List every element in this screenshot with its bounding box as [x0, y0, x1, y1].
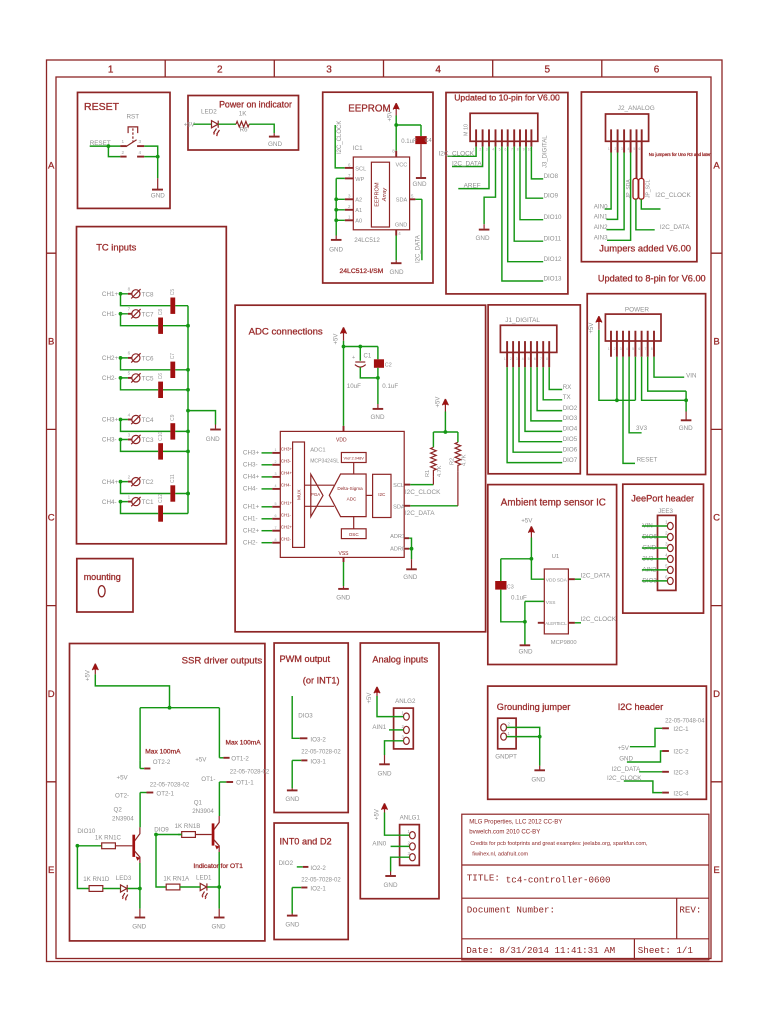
ADC1 PGA amplifier triangle [311, 474, 323, 516]
svg-text:DIO10: DIO10 [77, 828, 95, 835]
svg-text:OT1-1: OT1-1 [236, 780, 254, 787]
screw pin I2C-2 [662, 750, 669, 752]
svg-text:C2: C2 [385, 363, 392, 369]
svg-text:Indicator for OT1: Indicator for OT1 [193, 863, 243, 870]
svg-text:C10: C10 [158, 432, 164, 441]
wire +5V to VCC and C4 [396, 116, 421, 151]
wire core to I2C [366, 494, 373, 496]
screw pin IO3-2 [300, 737, 308, 739]
junction bus TC5 [186, 388, 190, 392]
svg-text:R2: R2 [449, 458, 455, 465]
wire DIO9 to RN1B and RN1A [156, 835, 182, 888]
jumper JP_SCL body [639, 178, 644, 199]
svg-text:POWER: POWER [625, 306, 650, 313]
svg-text:I2C_CLOCK: I2C_CLOCK [439, 150, 475, 157]
svg-text:3: 3 [326, 65, 332, 76]
svg-text:LED1: LED1 [196, 875, 212, 882]
svg-text:CH2-: CH2- [102, 375, 117, 382]
ground symbol Q1 [218, 909, 220, 917]
power +5V arrow ADC [341, 327, 347, 340]
screw terminal TC3 [102, 432, 154, 444]
wire +5V to ANLG1 pin1 [385, 813, 410, 836]
wire SDA I2C_DATA [415, 199, 422, 260]
wire ANLG2 pin3 to GND [385, 741, 404, 755]
svg-text:4: 4 [128, 412, 131, 417]
wire CH4+ [121, 482, 189, 494]
power +5V arrow ANLG1 [382, 803, 388, 812]
svg-text:1K: 1K [239, 111, 248, 118]
wire C3 to VSS net [501, 590, 545, 645]
svg-text:Delta-Sigma: Delta-Sigma [337, 486, 363, 491]
svg-text:TC3: TC3 [142, 437, 154, 444]
svg-text:1: 1 [128, 494, 131, 499]
junction RESET net [107, 144, 111, 148]
screw pin I2C-4 [662, 792, 669, 794]
capacitor C3 [495, 581, 506, 590]
ground symbol EEPROM left [335, 236, 337, 240]
svg-text:5: 5 [128, 371, 131, 376]
svg-text:2N3904: 2N3904 [112, 815, 134, 822]
screw pin I2C-1 [662, 727, 669, 729]
svg-text:7: 7 [511, 148, 513, 152]
svg-text:C7: C7 [170, 353, 176, 360]
screw pin OT1-1 [219, 781, 226, 783]
junction DIO9 [154, 833, 158, 837]
J3 pin stubs [476, 129, 531, 146]
wire IO2-1 to GND [291, 888, 293, 914]
ADC connections section box [235, 305, 486, 632]
svg-text:bvwelch.com 2010 CC-BY: bvwelch.com 2010 CC-BY [469, 829, 540, 836]
svg-text:CH4-: CH4- [102, 499, 117, 506]
svg-text:CH4-: CH4- [243, 486, 258, 493]
svg-text:TC8: TC8 [142, 291, 154, 298]
svg-text:A2: A2 [355, 198, 362, 204]
svg-text:Max 100mA: Max 100mA [145, 749, 181, 756]
junction CH2- [119, 376, 123, 380]
svg-text:2: 2 [510, 357, 512, 361]
POWER section box [587, 294, 705, 475]
svg-text:+: + [352, 355, 355, 361]
svg-text:0.1uF: 0.1uF [511, 595, 527, 602]
svg-text:4.7K: 4.7K [437, 465, 443, 477]
ADC1 input pin CH2- [243, 537, 292, 547]
svg-text:0.1uF: 0.1uF [382, 383, 398, 390]
svg-text:Grounding jumper: Grounding jumper [497, 702, 571, 712]
wire Q1 emitter to GND [218, 852, 220, 909]
ADC1 input pin CH2+ [243, 525, 293, 535]
frame row tick marks [47, 253, 723, 782]
capacitor C5 [170, 298, 175, 314]
capacitor C1 10uF polarized [355, 361, 365, 363]
svg-text:5: 5 [545, 65, 551, 76]
svg-text:2: 2 [217, 65, 223, 76]
jumper JP_SDA body [633, 178, 638, 199]
Power on indicator box [188, 96, 299, 151]
svg-text:B: B [713, 337, 719, 348]
capacitor C11 [170, 485, 175, 501]
svg-text:ADR0: ADR0 [390, 546, 405, 552]
svg-text:RX: RX [563, 384, 572, 391]
junction CH1+ [119, 292, 123, 296]
svg-text:GND: GND [476, 235, 490, 242]
svg-text:Document Number:: Document Number: [467, 905, 555, 916]
ADC1 Vref block [341, 453, 366, 463]
SSR driver outputs section box [70, 644, 265, 941]
JEE3 pin 4 3V3 [642, 552, 673, 562]
svg-text:CH1+: CH1+ [281, 501, 293, 506]
svg-text:4: 4 [275, 484, 277, 488]
junction bus TC2 [186, 492, 190, 496]
wire J1 pin4 DIO4 [525, 367, 562, 431]
svg-text:OT2-: OT2- [115, 793, 129, 800]
svg-text:7: 7 [275, 526, 277, 530]
svg-text:22-05-7048-04: 22-05-7048-04 [665, 719, 705, 725]
svg-text:I2C-3: I2C-3 [673, 770, 689, 777]
connector JEE3 body [658, 515, 676, 590]
IC1 pin SDA stub [410, 198, 416, 200]
svg-text:CH1+: CH1+ [243, 504, 260, 511]
svg-text:I2C header: I2C header [618, 702, 663, 712]
svg-text:1: 1 [108, 65, 114, 76]
svg-text:Q2: Q2 [114, 807, 123, 814]
connector GNDPT body [498, 718, 516, 749]
wire J1 pin2 DIO6 [513, 367, 562, 452]
power +5V arrow temp sensor [528, 526, 534, 537]
wire J2 pin4 AIN3 [607, 153, 631, 241]
svg-text:C1: C1 [364, 354, 372, 360]
IC1 pin A1 stub [345, 209, 354, 211]
svg-text:J3_DIGITAL: J3_DIGITAL [543, 135, 549, 168]
junction switch right [156, 155, 160, 159]
Grounding jumper and I2C header section box [488, 686, 707, 799]
svg-text:PWM output: PWM output [280, 654, 331, 664]
wire J3 pin1 I2C_CLOCK [448, 147, 477, 157]
svg-text:Q1: Q1 [194, 800, 203, 807]
J3 pin numbers [473, 148, 532, 152]
svg-text:RST: RST [127, 114, 140, 121]
op IC1 24LC512 body [353, 157, 409, 230]
svg-text:22-05-7028-02: 22-05-7028-02 [230, 770, 270, 776]
svg-text:8: 8 [517, 148, 519, 152]
svg-text:OT2-1: OT2-1 [156, 791, 174, 798]
wire J2 pin3 AIN2 [606, 153, 624, 230]
svg-text:1: 1 [608, 347, 610, 351]
svg-text:CH2+: CH2+ [102, 355, 119, 362]
wire J3 pin10 DIO8 [531, 147, 543, 179]
svg-text:(or INT1): (or INT1) [303, 675, 340, 685]
svg-text:C6: C6 [158, 373, 164, 380]
svg-text:1K RN1D: 1K RN1D [83, 876, 110, 883]
capacitor C2 0.1uF [374, 359, 384, 368]
svg-text:ADC: ADC [347, 497, 357, 502]
wire GND pin down [395, 236, 397, 261]
resistor R2 4.7K [455, 442, 461, 471]
svg-text:+5V: +5V [184, 122, 195, 128]
svg-text:2: 2 [128, 474, 131, 479]
ground symbol INT0 [291, 914, 293, 916]
capacitor C4 [415, 136, 426, 144]
svg-text:+5V: +5V [117, 775, 129, 782]
wire CH1- [121, 314, 189, 326]
svg-text:3: 3 [275, 472, 277, 476]
J2 pin numbers [608, 147, 641, 151]
svg-text:I2C-4: I2C-4 [673, 790, 689, 797]
wire I2C-3 to I2C_DATA [639, 771, 662, 773]
svg-text:RESET: RESET [84, 101, 120, 113]
capacitor C8 [158, 318, 163, 334]
svg-text:AIN1: AIN1 [594, 214, 608, 221]
resistor RN1D 1K [89, 886, 103, 892]
svg-text:I2C_CLOCK: I2C_CLOCK [655, 192, 691, 199]
wire J3 pin8 DIO10 [520, 147, 543, 220]
svg-text:GND: GND [403, 574, 417, 581]
svg-text:CH4-: CH4- [281, 483, 292, 488]
junction CH3- [119, 438, 123, 442]
svg-text:1K RN1A: 1K RN1A [163, 876, 190, 883]
svg-text:8: 8 [546, 357, 548, 361]
svg-text:6: 6 [534, 357, 536, 361]
svg-text:3: 3 [620, 347, 622, 351]
svg-text:LED3: LED3 [116, 875, 132, 882]
svg-text:5: 5 [528, 357, 530, 361]
wire +5V rail SSR [95, 674, 219, 760]
junction +5V VDD [342, 345, 346, 349]
junction bus TC4 [186, 430, 190, 434]
svg-text:DIO7: DIO7 [563, 457, 578, 464]
svg-text:GND: GND [212, 924, 226, 931]
svg-text:I2C_DATA: I2C_DATA [416, 235, 422, 263]
switch RST pin 4 stub [137, 156, 144, 158]
switch RST pin 3 stub [137, 145, 144, 147]
svg-text:fiwihex.nl, adafruit.com: fiwihex.nl, adafruit.com [472, 851, 528, 857]
POWER pin stubs [611, 331, 654, 357]
wire J3 pin2 I2C_DATA [452, 147, 483, 167]
svg-text:CH4+: CH4+ [281, 471, 293, 476]
JEE3 pin 6 DIO3 [642, 574, 673, 584]
svg-text:+5V: +5V [521, 518, 533, 525]
svg-text:C3: C3 [507, 585, 514, 591]
svg-text:D: D [48, 689, 55, 700]
svg-text:CH3-: CH3- [243, 462, 258, 469]
frame inner border [56, 77, 711, 959]
screw terminal TC6 [102, 351, 154, 363]
ANLG1 pin circles [410, 832, 416, 839]
svg-text:JEE3: JEE3 [658, 508, 673, 515]
wire OT1-1 to Q1 collector [218, 782, 220, 816]
svg-text:DIO3: DIO3 [563, 415, 578, 422]
svg-text:GND: GND [378, 771, 392, 778]
svg-text:+5V: +5V [195, 757, 207, 764]
svg-text:GND: GND [413, 181, 427, 188]
svg-text:PGA: PGA [311, 492, 320, 497]
connector POWER body [605, 314, 661, 341]
junction CH4- [119, 500, 123, 504]
IC1 pin WP stub [345, 177, 354, 179]
svg-text:M 10: M 10 [464, 124, 470, 136]
screw pin IO3-1 [292, 759, 301, 761]
ground symbol ADC caps [377, 404, 379, 408]
switch RST stem [132, 128, 134, 141]
svg-text:3: 3 [128, 432, 131, 437]
J1 pin stubs [507, 341, 549, 367]
svg-text:3V3: 3V3 [636, 425, 648, 432]
svg-text:DIO2: DIO2 [563, 405, 578, 412]
svg-text:CH4+: CH4+ [102, 479, 119, 486]
svg-text:Date: 8/31/2014 11:41:31 AM: Date: 8/31/2014 11:41:31 AM [466, 945, 615, 956]
svg-text:GND: GND [206, 436, 220, 443]
connector ANLG1 body [400, 825, 420, 866]
wire AIN0 to ANLG1 pin2 [391, 845, 410, 847]
svg-text:+5V: +5V [388, 111, 394, 122]
svg-text:TC5: TC5 [142, 376, 154, 383]
svg-text:C: C [713, 513, 720, 524]
LED2 emission arrows [214, 129, 220, 135]
svg-text:CH1+: CH1+ [102, 291, 119, 298]
junction C1 tap [358, 345, 362, 349]
ADC1 MUX block [293, 442, 305, 547]
ground symbol POWER [685, 412, 687, 420]
JEE3 pin 3 GND [642, 541, 673, 551]
title block outer [462, 814, 709, 960]
wire JP_SDA to I2C_DATA [636, 199, 655, 230]
Analog inputs section box [360, 643, 439, 899]
svg-text:TC2: TC2 [142, 479, 154, 486]
wire ANLG1 pin3 to GND [391, 857, 410, 871]
J1 pin numbers [504, 357, 548, 361]
ground symbol temp sensor [520, 644, 531, 646]
svg-text:CH2-: CH2- [243, 540, 258, 547]
wire J1 pin6 DIO2 [537, 367, 562, 410]
svg-text:TX: TX [563, 394, 571, 401]
svg-text:GND: GND [395, 223, 407, 229]
svg-text:4: 4 [522, 357, 524, 361]
svg-text:CH3-: CH3- [281, 459, 292, 464]
svg-text:A: A [713, 160, 720, 171]
svg-text:Max 100mA: Max 100mA [226, 740, 262, 747]
wire DIO10 to RN1C and RN1D [77, 846, 101, 889]
junction +5V temp [530, 557, 534, 561]
junction LED1 cathode [217, 885, 221, 889]
wire C2 to GND [377, 368, 379, 404]
wire WP A2 A1 A0 to GND [336, 178, 345, 235]
ADC1 internal signal lines [305, 485, 335, 506]
svg-text:8: 8 [651, 347, 653, 351]
svg-text:GND: GND [151, 193, 165, 200]
screw terminal TC4 [102, 412, 154, 424]
resistor RN1A 1K [166, 884, 180, 890]
screw pin I2C-3 [662, 771, 669, 773]
POWER pin numbers [608, 347, 653, 351]
power +5V arrow SSR [92, 664, 98, 675]
power +5V arrow EEPROM [393, 103, 399, 115]
junction GNDPT [538, 735, 542, 739]
wire +5V to LED2 [194, 123, 212, 125]
junction bus TC7 [186, 324, 190, 328]
svg-text:IO2-1: IO2-1 [310, 886, 326, 893]
svg-text:4.7K: 4.7K [461, 454, 467, 466]
screw pin OT1-2 [219, 757, 223, 759]
svg-text:1: 1 [504, 357, 506, 361]
junction IOREF [615, 398, 619, 402]
svg-text:JP_SCL: JP_SCL [646, 179, 652, 198]
svg-text:SDA: SDA [557, 578, 568, 584]
GNDPT pin circles [501, 724, 507, 731]
junction +5V EEPROM [394, 123, 398, 127]
wire J3 pin9 DIO9 [526, 147, 543, 199]
IC1 inner EEPROM Array block [371, 162, 389, 227]
ADC1 pin VDD stub [343, 426, 345, 432]
ADC1 input pin CH4+ [243, 471, 293, 481]
IC1 pin SCL stub [345, 167, 354, 169]
wire VSS to GND [343, 562, 345, 586]
svg-text:+5V: +5V [375, 809, 381, 820]
U1 pin SDA stub [568, 578, 575, 580]
svg-text:GND: GND [268, 141, 282, 148]
wire DIO3 to IO3-2 [292, 696, 300, 738]
svg-text:6: 6 [638, 147, 640, 151]
svg-text:4: 4 [626, 347, 628, 351]
ADC1 input pin CH1+ [243, 501, 293, 511]
svg-text:C: C [48, 513, 55, 524]
wire CH2+ [121, 358, 189, 370]
svg-text:5: 5 [632, 347, 634, 351]
svg-text:ANLG1: ANLG1 [400, 815, 421, 822]
svg-text:Sheet: 1/1: Sheet: 1/1 [638, 945, 694, 956]
Updated to 10-pin section box [446, 93, 568, 294]
svg-text:3: 3 [139, 139, 142, 144]
svg-text:+5V: +5V [85, 670, 91, 681]
svg-text:SDA: SDA [393, 505, 405, 511]
Ambient temp sensor section box [488, 485, 617, 665]
svg-text:I2C: I2C [378, 492, 386, 497]
svg-text:5: 5 [275, 502, 277, 506]
svg-text:AIN2: AIN2 [594, 224, 608, 231]
wire I2C-2 to GND [627, 751, 662, 762]
svg-text:1: 1 [122, 139, 125, 144]
svg-text:DIO3: DIO3 [298, 713, 313, 720]
svg-text:IO3-2: IO3-2 [310, 737, 326, 744]
wire +5V to VDD and C3 [501, 538, 545, 582]
wire +5V to pullup resistors [433, 412, 458, 448]
wire IO3-1 to GND [291, 760, 293, 788]
svg-text:GND: GND [371, 414, 385, 421]
op U1 MCP9800 body [544, 569, 568, 634]
resistor RN1C 1K [102, 843, 116, 849]
svg-text:GND: GND [531, 777, 545, 784]
wire SDA to R2 and I2C_DATA [410, 505, 458, 507]
svg-text:+5V: +5V [367, 693, 373, 704]
INT0 and D2 section box [274, 823, 348, 940]
power +5V arrow pullups [442, 399, 448, 412]
wire LED2 to R6 [218, 123, 236, 125]
capacitor C7 [170, 362, 175, 378]
svg-text:0.1uF: 0.1uF [401, 139, 417, 145]
junction CH1- [119, 312, 123, 316]
svg-text:2: 2 [614, 347, 616, 351]
svg-text:4: 4 [435, 65, 441, 76]
svg-text:mounting: mounting [84, 572, 121, 582]
U1 pin SCL stub [568, 622, 575, 624]
ground symbol GNDPT [539, 766, 541, 770]
wire J3 pin7 DIO11 [514, 147, 543, 242]
transistor Q2 [132, 827, 140, 863]
svg-text:MCP3424SL: MCP3424SL [310, 459, 339, 465]
op ADC1 MCP3424 body [280, 431, 404, 557]
svg-text:C9: C9 [170, 414, 176, 421]
svg-text:I2C-2: I2C-2 [673, 749, 689, 756]
svg-text:10uF: 10uF [347, 383, 361, 390]
IC1 pin VCC stub [395, 151, 397, 157]
